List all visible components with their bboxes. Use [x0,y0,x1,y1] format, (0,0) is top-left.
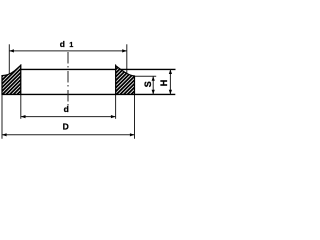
svg-text:1: 1 [69,42,73,49]
svg-text:d: d [64,104,69,114]
svg-text:D: D [63,122,69,132]
svg-text:S: S [143,81,153,87]
svg-text:d: d [60,39,65,49]
svg-text:H: H [159,80,169,87]
